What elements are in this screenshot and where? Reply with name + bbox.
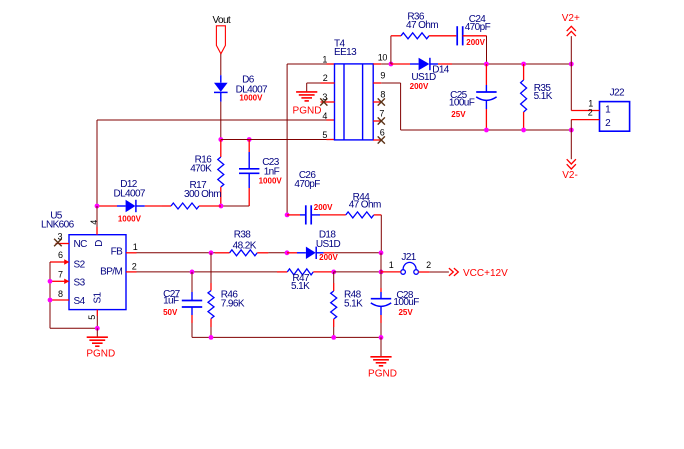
node S1 junction <box>95 326 100 331</box>
svg-text:R38: R38 <box>234 229 252 240</box>
wire D6 to pin5 net <box>220 102 222 140</box>
node R48 bottom <box>331 335 336 340</box>
svg-text:200V: 200V <box>314 203 333 212</box>
wire R44 to VCC node <box>380 215 382 253</box>
svg-text:6: 6 <box>58 250 63 260</box>
wire U5 source rail <box>49 262 51 328</box>
connector J21 <box>401 270 406 275</box>
node S3 junction <box>48 279 53 284</box>
svg-text:200V: 200V <box>466 38 485 47</box>
svg-text:V2+: V2+ <box>562 13 580 24</box>
svg-text:5: 5 <box>322 130 327 140</box>
resistor R16 <box>220 140 222 158</box>
capacitor C23 <box>248 140 250 153</box>
svg-text:1: 1 <box>322 54 327 64</box>
svg-text:3: 3 <box>322 92 327 102</box>
wire pin1 net <box>327 63 335 65</box>
svg-text:7: 7 <box>58 269 63 279</box>
wire secondary top rail <box>452 63 571 65</box>
wire S1 to ground <box>96 328 98 337</box>
node R46 bottom <box>209 335 214 340</box>
svg-text:7.96K: 7.96K <box>221 298 245 309</box>
node C28 junction <box>379 270 384 275</box>
svg-text:5.1K: 5.1K <box>534 91 553 102</box>
svg-text:5.1K: 5.1K <box>344 298 363 309</box>
node C28 bottom <box>379 335 384 340</box>
node pin5-net junction <box>218 137 223 142</box>
wire FB net <box>137 252 216 254</box>
wire drain node <box>97 205 117 207</box>
wire primary loop left <box>96 120 98 206</box>
svg-text:10: 10 <box>378 52 388 62</box>
capacitor C26 <box>287 214 300 216</box>
svg-text:NC: NC <box>74 239 88 250</box>
wire R47 to VCC node <box>334 271 381 273</box>
T4 pin 6 no-connect <box>378 136 385 143</box>
wire bottom rail <box>192 336 381 338</box>
svg-text:7: 7 <box>379 109 384 119</box>
ground PGND bottom <box>370 356 391 358</box>
resistor R44 <box>320 214 346 216</box>
svg-text:5: 5 <box>87 315 97 320</box>
svg-text:J22: J22 <box>610 88 625 99</box>
diode D12 <box>117 205 126 207</box>
wire BP/M net <box>137 271 278 273</box>
U5 pin 8 S4 <box>50 299 69 301</box>
diode D18 <box>287 252 297 254</box>
svg-text:100uF: 100uF <box>449 98 475 109</box>
node pin10 junction <box>389 62 394 67</box>
svg-text:S3: S3 <box>74 277 86 288</box>
U5 pin 2 BP/M stub <box>126 271 137 273</box>
wire J21 to VCC port <box>430 271 449 273</box>
node R35 bottom <box>521 128 526 133</box>
T4 pin 8 no-connect <box>378 98 385 105</box>
svg-text:PGND: PGND <box>86 349 115 360</box>
svg-text:Vout: Vout <box>212 15 230 26</box>
resistor R38 <box>215 252 230 254</box>
port VCC+12V <box>449 268 458 276</box>
node D18 anode junction <box>285 250 290 255</box>
node C27 junction <box>190 270 195 275</box>
resistor R48 <box>333 272 335 283</box>
T4 pin 9 wire <box>381 82 400 84</box>
svg-text:2: 2 <box>132 262 137 272</box>
svg-text:1000V: 1000V <box>259 176 283 185</box>
svg-text:US1D: US1D <box>316 239 341 250</box>
J21 pin 2 stub <box>418 271 429 273</box>
svg-text:25V: 25V <box>451 110 466 119</box>
T4 pin 10 wire <box>381 63 391 65</box>
capacitor C24 <box>456 26 458 45</box>
wire pin5 net <box>221 139 327 141</box>
svg-text:8: 8 <box>380 90 385 100</box>
T4 pin 2 wire to PGND <box>321 82 335 84</box>
capacitor C28 <box>380 253 382 272</box>
diode D14 <box>391 63 410 65</box>
ground PGND U5 <box>87 336 108 338</box>
svg-text:1: 1 <box>389 260 394 270</box>
diode D6 <box>220 75 222 83</box>
svg-text:PGND: PGND <box>368 369 397 380</box>
svg-text:S1: S1 <box>93 291 104 303</box>
U5 pin 5 S1 stub <box>96 310 98 316</box>
U5 pin 4 D stub <box>96 206 98 227</box>
wire C23 bottom to clamp node <box>221 205 249 207</box>
wire Vout to D6 <box>220 54 222 75</box>
svg-text:8: 8 <box>58 289 63 299</box>
svg-text:J21: J21 <box>401 252 416 263</box>
T4 pin 7 no-connect <box>378 117 385 124</box>
node C25 bottom <box>484 128 489 133</box>
svg-text:300 Ohm: 300 Ohm <box>184 189 221 200</box>
U5 pin 3 NC no-connect <box>56 243 70 245</box>
svg-text:3: 3 <box>57 231 62 241</box>
resistor R35 <box>523 64 525 80</box>
svg-text:47 Ohm: 47 Ohm <box>349 200 381 211</box>
svg-text:1uF: 1uF <box>163 296 179 307</box>
node drain <box>95 204 100 209</box>
svg-text:1: 1 <box>133 242 138 252</box>
node V2- junction <box>569 128 574 133</box>
svg-text:1000V: 1000V <box>239 93 263 102</box>
port Vout <box>216 26 225 54</box>
svg-text:47 Ohm: 47 Ohm <box>406 20 438 31</box>
svg-text:200V: 200V <box>319 253 338 262</box>
node C24-C25 junction <box>484 62 489 67</box>
svg-text:470pF: 470pF <box>294 179 320 190</box>
U5 pin 1 FB stub <box>126 252 137 254</box>
wire secondary bottom rail <box>401 129 572 131</box>
port V2+ <box>567 26 576 36</box>
svg-text:VCC+12V: VCC+12V <box>463 268 508 279</box>
node V2+ junction <box>569 62 574 67</box>
wire to bottom PGND <box>380 337 382 356</box>
svg-text:470K: 470K <box>190 163 212 174</box>
svg-text:EE13: EE13 <box>334 47 357 58</box>
T4 right pin stubs <box>373 63 381 65</box>
svg-text:4: 4 <box>89 220 99 225</box>
J22 pin 1 stub <box>571 110 599 112</box>
svg-text:FB: FB <box>111 247 124 258</box>
node R35 top <box>521 62 526 67</box>
svg-text:2: 2 <box>588 108 593 118</box>
node R48 junction <box>331 270 336 275</box>
svg-text:S4: S4 <box>74 296 86 307</box>
svg-text:DL4007: DL4007 <box>113 188 145 199</box>
svg-text:6: 6 <box>380 128 385 138</box>
svg-text:PGND: PGND <box>293 106 322 117</box>
svg-text:1000V: 1000V <box>118 215 142 224</box>
svg-text:200V: 200V <box>410 82 429 91</box>
T4 pin 3 no-connect <box>321 101 335 103</box>
svg-text:5.1K: 5.1K <box>291 281 310 292</box>
svg-text:2: 2 <box>426 260 431 270</box>
resistor R17 <box>162 205 171 207</box>
connector J22 body <box>600 102 630 132</box>
wire rail to V2- <box>570 130 572 159</box>
svg-text:50V: 50V <box>163 308 178 317</box>
svg-text:V2-: V2- <box>562 170 578 181</box>
node VCC-D18 junction <box>379 250 384 255</box>
resistor R47 <box>277 271 287 273</box>
svg-text:48.2K: 48.2K <box>233 241 257 252</box>
port V2- <box>567 159 576 169</box>
svg-text:4: 4 <box>322 111 327 121</box>
svg-text:2: 2 <box>323 73 328 83</box>
node C26 junction <box>285 213 290 218</box>
wire J22 pin2 to rail <box>570 120 572 130</box>
svg-text:25V: 25V <box>398 308 413 317</box>
transformer T4 <box>335 64 374 140</box>
resistor R46 <box>210 253 212 283</box>
capacitor C27 <box>191 272 193 292</box>
node FB-R46 junction <box>209 250 214 255</box>
wire V2+ to rail <box>570 36 572 64</box>
J21 pin 1 stub <box>381 271 401 273</box>
node S4 junction <box>48 298 53 303</box>
op-amp U5 LNK606 body <box>69 235 126 310</box>
ground PGND transformer <box>296 91 317 93</box>
svg-text:D: D <box>94 240 105 247</box>
capacitor C25 <box>485 64 487 85</box>
wire rail to J22 pin1 <box>570 64 572 111</box>
svg-text:S2: S2 <box>74 259 86 270</box>
svg-text:470pF: 470pF <box>465 22 491 33</box>
J22 pin 2 stub <box>571 119 599 121</box>
svg-text:BP/M: BP/M <box>100 266 122 277</box>
U5 pin 7 S3 <box>50 280 64 282</box>
resistor R36 <box>390 36 392 64</box>
svg-text:LNK606: LNK606 <box>41 219 75 230</box>
U5 pin 6 S2 <box>50 261 64 263</box>
svg-text:100uF: 100uF <box>393 297 419 308</box>
node clamp junction <box>219 204 224 209</box>
svg-text:9: 9 <box>380 71 385 81</box>
